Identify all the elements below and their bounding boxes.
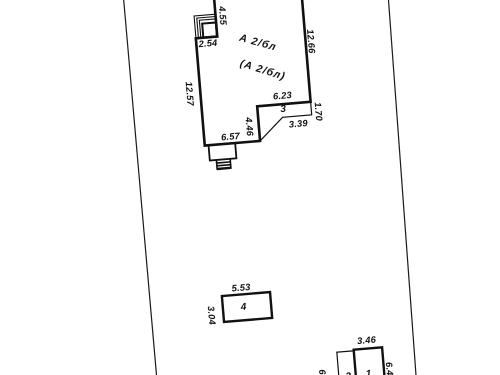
building 1 (bottom) [354, 347, 386, 375]
svg-text:6.57: 6.57 [221, 131, 241, 143]
svg-text:3: 3 [280, 104, 287, 115]
building A outline [192, 0, 313, 146]
svg-text:2: 2 [344, 371, 352, 375]
svg-text:5.53: 5.53 [231, 282, 251, 294]
svg-text:(А 2/бл): (А 2/бл) [238, 57, 287, 82]
svg-text:6.45: 6.45 [384, 362, 396, 375]
svg-text:1: 1 [365, 369, 372, 375]
svg-text:А 2/бл: А 2/бл [237, 32, 278, 54]
svg-text:6.23: 6.23 [273, 90, 293, 102]
porch steps [194, 14, 217, 38]
svg-text:4: 4 [239, 302, 247, 314]
svg-text:4.46: 4.46 [243, 116, 255, 137]
plot boundary left [124, 0, 157, 375]
svg-text:4.55: 4.55 [217, 5, 229, 26]
appendage P1 [209, 143, 237, 160]
plot boundary right [389, 0, 417, 375]
svg-text:12.57: 12.57 [184, 81, 196, 107]
svg-text:3.04: 3.04 [206, 306, 218, 326]
svg-text:2.54: 2.54 [197, 38, 218, 50]
shed 4 [222, 292, 272, 322]
svg-text:3.46: 3.46 [357, 334, 377, 346]
annex 3 outline (thin) [257, 102, 313, 141]
annex 2 (bottom, thin) [337, 351, 357, 375]
svg-text:3.39: 3.39 [288, 118, 308, 130]
appendage P2 striped [216, 159, 231, 170]
svg-text:1.70: 1.70 [313, 102, 325, 122]
svg-text:6.12: 6.12 [317, 369, 329, 375]
svg-text:12.66: 12.66 [305, 29, 317, 55]
